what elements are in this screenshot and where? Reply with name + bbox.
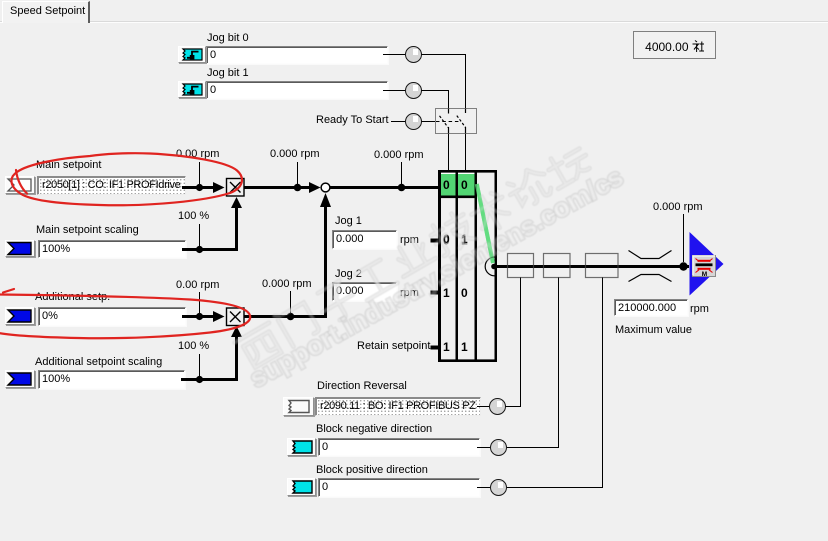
svg-text:0: 0 xyxy=(443,233,450,247)
svg-text:1: 1 xyxy=(461,233,468,247)
